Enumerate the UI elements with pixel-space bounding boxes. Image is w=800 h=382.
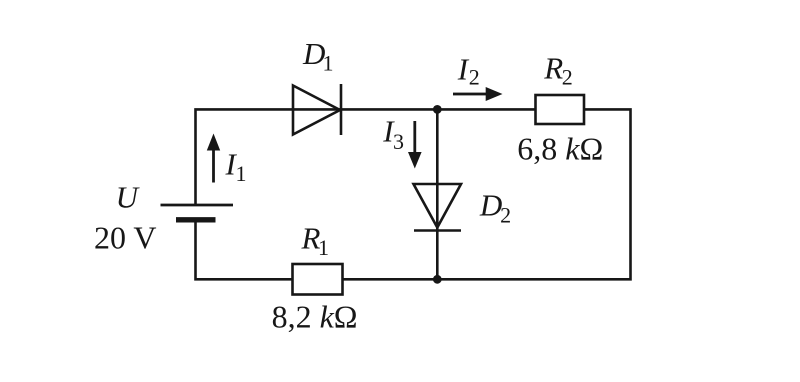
label D2: [479, 187, 511, 227]
svg-text:2: 2: [500, 203, 511, 228]
svg-text:6,8 kΩ: 6,8 kΩ: [517, 131, 603, 167]
battery U: [161, 205, 234, 220]
label 6,8 kOhm: [517, 131, 603, 167]
diode D1: [293, 84, 341, 135]
svg-text:D: D: [479, 187, 502, 222]
label 8,2 kOhm: [272, 298, 358, 334]
current arrow I3: [408, 121, 422, 169]
label I2: [457, 52, 480, 90]
label U: [116, 180, 141, 215]
svg-text:1: 1: [323, 51, 334, 76]
svg-text:20 V: 20 V: [94, 220, 157, 256]
svg-text:1: 1: [236, 161, 247, 186]
label 20 V: [94, 220, 157, 256]
resistor R2: [536, 95, 585, 124]
svg-text:3: 3: [393, 129, 404, 154]
wire bottom left from R1 to battery: [196, 221, 293, 280]
svg-text:U: U: [116, 180, 141, 215]
svg-text:R: R: [543, 51, 563, 86]
svg-text:1: 1: [318, 235, 329, 260]
label I3: [382, 114, 404, 154]
current arrow I1: [207, 134, 220, 183]
svg-text:2: 2: [562, 65, 573, 90]
label D1: [302, 36, 334, 76]
current arrow I2: [453, 87, 503, 101]
label I1: [225, 147, 247, 186]
wire right side from R2 down to bottom: [343, 109, 631, 279]
wire top right from D1 to R2: [341, 108, 536, 111]
svg-text:8,2 kΩ: 8,2 kΩ: [272, 298, 358, 334]
wire top left from battery to D1: [196, 109, 342, 205]
diode D2: [414, 184, 462, 231]
label R2: [543, 51, 573, 90]
node A (top junction): [433, 105, 442, 114]
resistor R1: [293, 264, 343, 295]
label R1: [301, 221, 330, 261]
node B (bottom junction): [433, 275, 442, 284]
wire middle branch through D2: [436, 109, 439, 279]
svg-text:2: 2: [469, 64, 480, 89]
